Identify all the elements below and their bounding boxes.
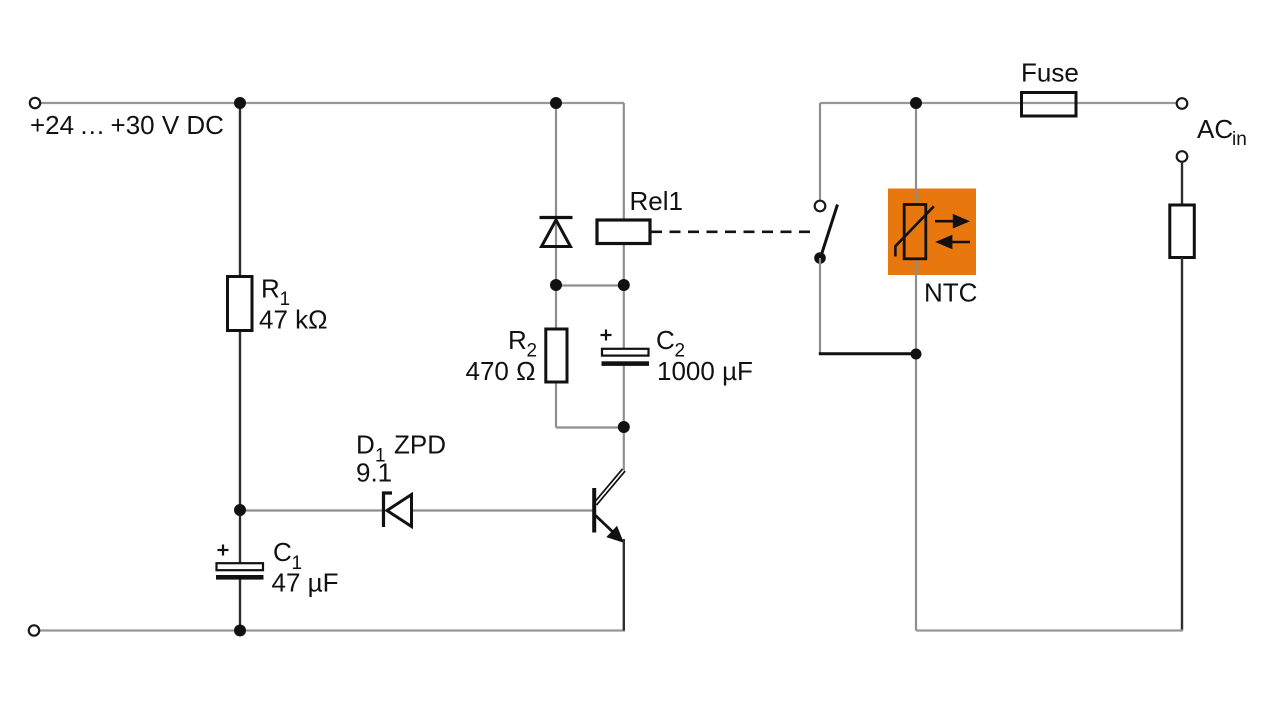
svg-text:AC: AC [1197, 114, 1233, 144]
svg-text:47 µF: 47 µF [272, 568, 339, 598]
svg-text:R: R [261, 274, 280, 304]
svg-text:R: R [508, 325, 527, 355]
svg-text:Fuse: Fuse [1021, 58, 1079, 88]
svg-text:+24 … +30 V DC: +24 … +30 V DC [30, 110, 224, 140]
svg-text:47 kΩ: 47 kΩ [259, 305, 328, 335]
svg-text:ZPD: ZPD [394, 430, 446, 460]
svg-text:NTC: NTC [924, 278, 977, 308]
svg-text:D: D [356, 430, 375, 460]
svg-text:Rel1: Rel1 [630, 186, 683, 216]
svg-text:470 Ω: 470 Ω [466, 356, 536, 386]
svg-text:C: C [273, 537, 292, 567]
svg-text:1000 µF: 1000 µF [657, 356, 753, 386]
svg-text:in: in [1232, 129, 1247, 150]
svg-text:9.1: 9.1 [356, 458, 392, 488]
svg-text:C: C [656, 325, 675, 355]
